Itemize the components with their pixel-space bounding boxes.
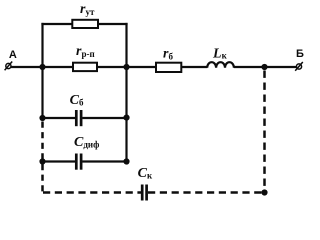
- node bottom-tap junction: [261, 64, 267, 70]
- wire bottom dashed left: [43, 191, 141, 194]
- wire C_диф right: [82, 160, 126, 162]
- wire to r_б: [127, 66, 157, 68]
- capacitor C_б: [76, 110, 81, 126]
- wire right bus solid: [125, 23, 127, 162]
- resistor r_б: [156, 63, 181, 72]
- wire top branch left: [41, 23, 72, 25]
- wire C_б left: [43, 117, 76, 119]
- wire main left segment: [43, 66, 74, 68]
- capacitor C_диф: [76, 154, 81, 170]
- wire right dashed vertical: [263, 71, 266, 191]
- node C_б right: [123, 115, 129, 121]
- wire C_б right: [82, 117, 126, 119]
- node bottom right: [261, 189, 267, 195]
- wire top branch right: [98, 23, 128, 25]
- wire L_к to terminal Б: [234, 66, 297, 68]
- wire left bus solid: [41, 23, 43, 119]
- inductor L_к: [207, 62, 234, 68]
- terminal A: [5, 62, 13, 71]
- node main-right junction: [123, 64, 129, 70]
- resistor r_ут: [72, 20, 98, 28]
- wire left bus dashed lower: [41, 164, 44, 193]
- wire main mid segment: [97, 66, 127, 68]
- resistor r_р-п: [73, 63, 97, 71]
- svg-text:Б: Б: [296, 48, 304, 60]
- node C_б left: [39, 115, 45, 121]
- wire left bus dashed upper: [41, 122, 44, 160]
- wire bottom dashed right: [148, 191, 265, 194]
- node C_диф left: [39, 158, 45, 164]
- wire C_диф left: [43, 160, 76, 162]
- svg-text:А: А: [9, 49, 17, 61]
- node A-left junction: [39, 64, 45, 70]
- wire r_б to L_к: [181, 66, 207, 68]
- node C_диф right: [123, 158, 129, 164]
- capacitor C_к: [142, 185, 146, 201]
- wire A to left bus: [11, 66, 43, 68]
- terminal Б: [295, 62, 303, 71]
